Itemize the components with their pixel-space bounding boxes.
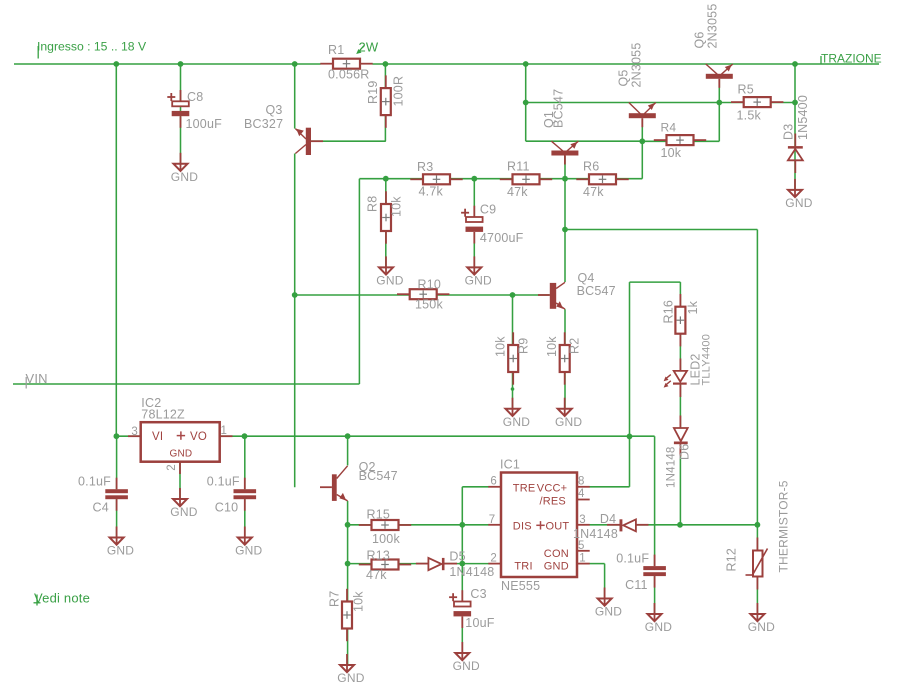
svg-text:GND: GND [748,620,775,634]
svg-text:GND: GND [465,274,492,288]
svg-text:100uF: 100uF [186,117,223,131]
svg-text:R2: R2 [568,338,582,354]
svg-text:CON: CON [544,548,569,560]
svg-text:0.1uF: 0.1uF [207,475,240,489]
svg-text:GND: GND [595,605,622,619]
svg-text:4700uF: 4700uF [480,231,524,245]
svg-text:R13: R13 [367,549,391,563]
svg-text:0.056R: 0.056R [328,68,370,82]
svg-text:D6: D6 [678,444,692,460]
svg-text:NE555: NE555 [501,579,540,593]
svg-text:THERMISTOR-5: THERMISTOR-5 [777,480,791,572]
svg-text:R4: R4 [661,121,677,135]
svg-text:10k: 10k [390,196,404,217]
svg-text:R11: R11 [507,160,530,174]
svg-text:GND: GND [235,544,262,558]
svg-text:Ingresso : 15 .. 18 V: Ingresso : 15 .. 18 V [37,40,147,54]
svg-text:VIN: VIN [26,371,48,386]
svg-text:0.1uF: 0.1uF [78,475,111,489]
svg-text:R8: R8 [366,196,380,212]
svg-text:10k: 10k [661,146,682,160]
svg-text:R10: R10 [418,278,442,292]
svg-text:GND: GND [453,659,480,673]
svg-text:D4: D4 [600,512,616,526]
svg-text:D5: D5 [449,550,465,564]
svg-text:R9: R9 [517,338,531,354]
svg-text:7: 7 [489,514,496,526]
svg-text:1.5k: 1.5k [737,109,762,123]
svg-text:R12: R12 [725,548,739,572]
svg-text:0.1uF: 0.1uF [616,551,649,565]
svg-text:R1: R1 [328,43,344,57]
svg-text:6: 6 [490,475,497,487]
svg-text:R15: R15 [367,508,391,522]
svg-text:10k: 10k [352,591,366,612]
svg-text:47k: 47k [366,568,387,582]
svg-text:2: 2 [166,464,178,471]
svg-text:GND: GND [171,170,198,184]
svg-text:47k: 47k [583,185,604,199]
svg-text:VI: VI [152,431,163,443]
svg-text:1: 1 [221,425,228,437]
svg-text:1N5400: 1N5400 [796,95,810,140]
svg-text:C8: C8 [187,90,203,104]
svg-text:2N3055: 2N3055 [706,4,720,49]
svg-text:Q6: Q6 [693,31,707,48]
svg-text:R7: R7 [328,591,342,607]
svg-text:C3: C3 [470,587,486,601]
svg-text:GND: GND [170,448,193,459]
svg-text:150k: 150k [415,298,443,312]
svg-text:3: 3 [131,426,138,438]
svg-text:C4: C4 [93,501,109,515]
svg-text:IC1: IC1 [500,457,520,471]
svg-text:R3: R3 [417,160,433,174]
svg-text:3: 3 [579,514,586,526]
svg-text:OUT: OUT [546,521,570,533]
svg-text:TRI: TRI [514,561,532,573]
svg-text:GND: GND [555,415,582,429]
svg-text:GND: GND [107,544,134,558]
svg-text:47k: 47k [507,185,528,199]
svg-text:BC547: BC547 [552,89,566,128]
svg-text:10k: 10k [494,336,508,357]
svg-text:5: 5 [578,540,585,552]
svg-text:R6: R6 [583,160,599,174]
svg-text:VCC+: VCC+ [537,483,567,495]
svg-text:8: 8 [578,475,585,487]
svg-text:C10: C10 [215,501,239,515]
svg-text:GND: GND [376,274,403,288]
svg-text:VO: VO [190,431,207,443]
svg-text:C11: C11 [625,578,648,592]
svg-text:Q5: Q5 [617,69,631,86]
svg-text:BC547: BC547 [359,469,398,483]
svg-text:2: 2 [490,553,497,565]
svg-text:4.7k: 4.7k [419,185,444,199]
svg-text:BC547: BC547 [577,284,616,298]
svg-text:R16: R16 [662,300,676,324]
svg-text:4: 4 [578,488,585,500]
svg-text:/RES: /RES [540,496,566,508]
svg-text:DIS: DIS [513,521,532,533]
svg-text:BC327: BC327 [244,117,283,131]
svg-text:GND: GND [170,505,197,519]
svg-text:2W: 2W [359,40,379,55]
svg-text:C9: C9 [480,203,496,217]
svg-text:1k: 1k [686,300,700,314]
svg-text:Q3: Q3 [266,103,283,117]
svg-text:GND: GND [337,671,364,685]
svg-text:1N4148: 1N4148 [573,527,618,541]
svg-text:TRAZIONE: TRAZIONE [821,52,882,66]
svg-text:GND: GND [544,561,569,573]
svg-text:1: 1 [579,553,586,565]
svg-text:78L12Z: 78L12Z [141,407,185,421]
svg-text:100k: 100k [372,532,400,546]
svg-text:R19: R19 [366,80,380,104]
svg-text:GND: GND [785,196,812,210]
svg-text:GND: GND [645,620,672,634]
svg-text:10uF: 10uF [465,616,494,630]
svg-text:GND: GND [503,415,530,429]
svg-text:2N3055: 2N3055 [630,43,644,88]
svg-text:D3: D3 [782,124,796,140]
svg-text:TLLY4400: TLLY4400 [701,334,713,386]
svg-text:10k: 10k [545,336,559,357]
svg-text:100R: 100R [392,76,406,107]
svg-text:1N4148: 1N4148 [449,565,494,579]
svg-text:1N4148: 1N4148 [666,447,678,488]
svg-text:Q4: Q4 [578,271,595,285]
svg-text:R5: R5 [738,83,754,97]
svg-text:Vedi note: Vedi note [34,591,90,606]
svg-text:TRE: TRE [513,483,536,495]
